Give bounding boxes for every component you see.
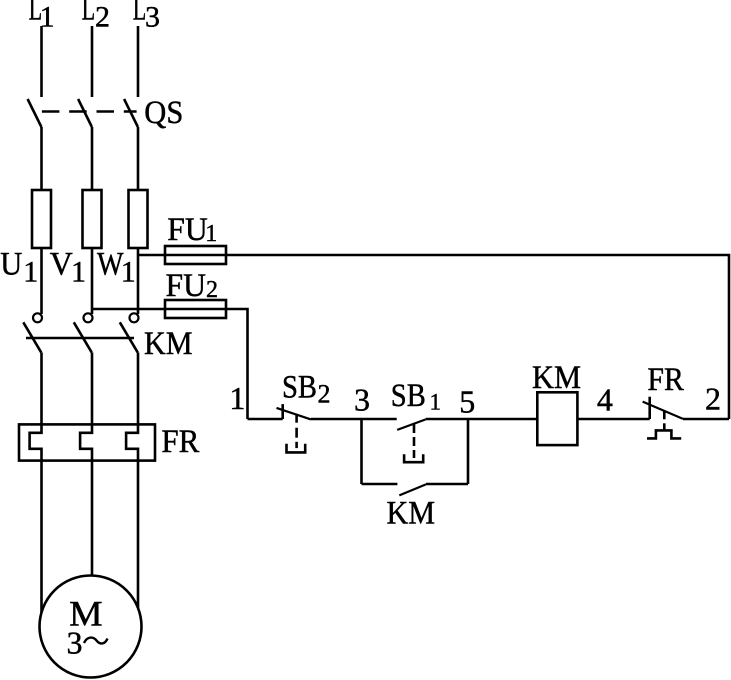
svg-text:SB: SB: [282, 370, 317, 406]
svg-text:2: 2: [705, 380, 721, 416]
svg-text:1: 1: [205, 221, 217, 247]
svg-text:3: 3: [67, 624, 83, 660]
svg-text:KM: KM: [144, 326, 193, 362]
svg-text:1: 1: [40, 1, 55, 34]
svg-text:V: V: [50, 247, 73, 283]
svg-text:1: 1: [430, 390, 442, 415]
svg-text:FU: FU: [167, 212, 208, 248]
svg-text:KM: KM: [532, 360, 581, 396]
svg-text:5: 5: [459, 383, 475, 419]
svg-text:1: 1: [71, 255, 86, 288]
svg-text:1: 1: [229, 380, 245, 416]
svg-text:FR: FR: [161, 424, 199, 460]
svg-text:U: U: [0, 247, 22, 283]
svg-text:FR: FR: [647, 362, 684, 398]
svg-text:1: 1: [23, 255, 38, 288]
svg-text:1: 1: [121, 255, 136, 288]
svg-text:3: 3: [354, 382, 370, 418]
svg-text:SB: SB: [391, 378, 426, 414]
svg-text:4: 4: [597, 381, 613, 417]
svg-text:2: 2: [206, 277, 218, 303]
svg-text:FU: FU: [166, 268, 207, 304]
svg-text:KM: KM: [387, 496, 436, 532]
svg-text:QS: QS: [144, 95, 183, 131]
svg-text:2: 2: [318, 380, 331, 409]
svg-text:3: 3: [145, 1, 160, 34]
svg-text:L: L: [82, 0, 96, 28]
svg-text:2: 2: [95, 1, 110, 34]
